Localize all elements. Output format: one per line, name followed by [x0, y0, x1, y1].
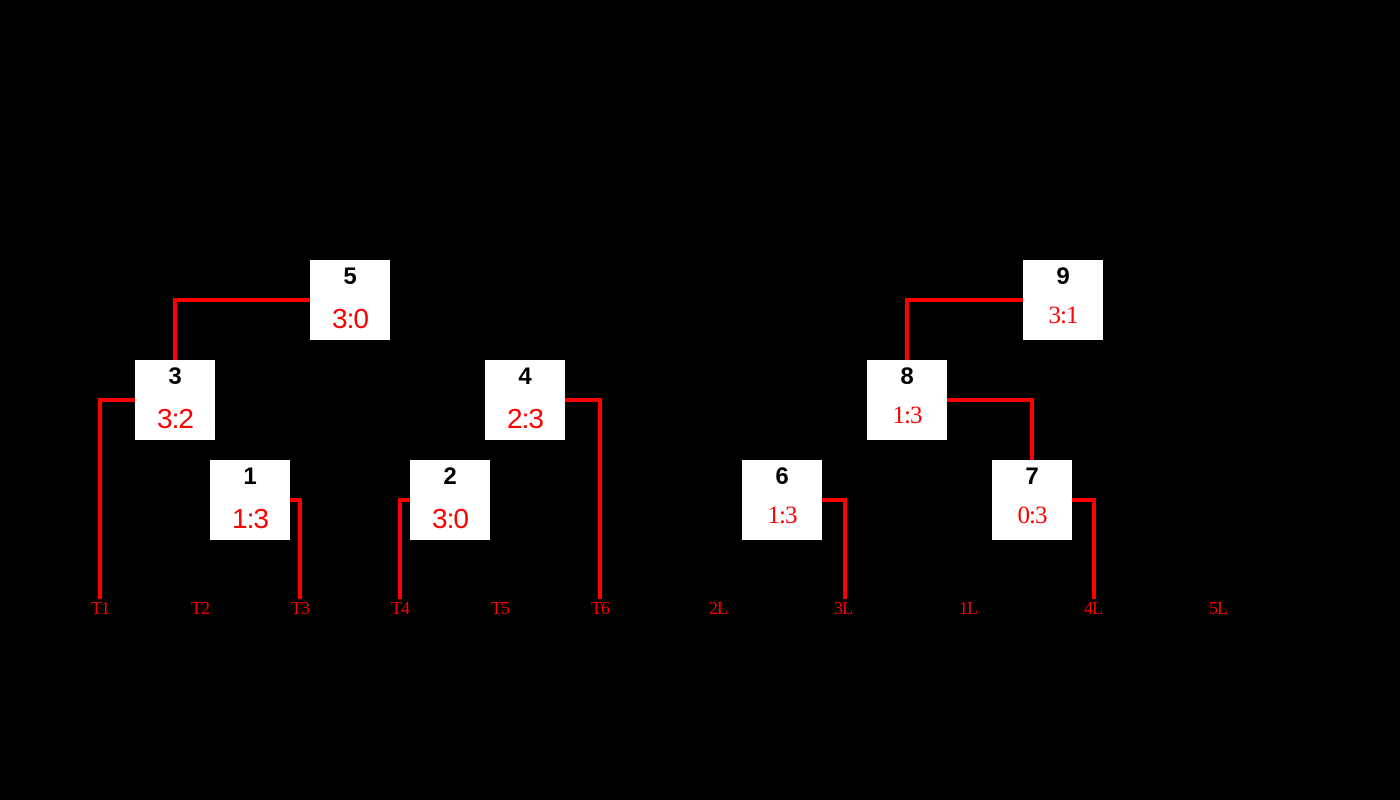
wire box4 to T6 vertical	[598, 398, 602, 599]
wire box8 to box7 vertical	[1030, 398, 1034, 460]
label T1	[70, 599, 130, 617]
wire box4 to T6 horizontal	[565, 398, 602, 402]
label 2L	[688, 599, 748, 617]
wire box9 to box8 vertical	[905, 298, 909, 360]
label 3L	[813, 599, 873, 617]
wire T4 to box2 horizontal	[398, 498, 410, 502]
wire box3 to box5 horizontal	[173, 298, 310, 302]
label T6	[570, 599, 630, 617]
wire T4 riser vertical	[398, 498, 402, 599]
wire T1 riser vertical	[98, 398, 102, 599]
match box 6	[742, 460, 822, 540]
match box 8	[867, 360, 947, 440]
match box 9	[1023, 260, 1103, 340]
label 1L	[938, 599, 998, 617]
wire box6 to 3L horizontal	[822, 498, 847, 502]
label T2	[170, 599, 230, 617]
wire box1 to T3 vertical	[298, 498, 302, 599]
match box 5	[310, 260, 390, 340]
wire box6 to 3L vertical	[843, 498, 847, 599]
match box 4	[485, 360, 565, 440]
wire box3 to box5 vertical	[173, 298, 177, 360]
wire box8 to box7 horizontal	[947, 398, 1034, 402]
label 5L	[1188, 599, 1248, 617]
label 4L	[1063, 599, 1123, 617]
wire box9 to box8 horizontal	[905, 298, 1023, 302]
match box 1	[210, 460, 290, 540]
label T3	[270, 599, 330, 617]
wire box1 to T3 horizontal	[290, 498, 302, 502]
match box 7	[992, 460, 1072, 540]
label T5	[470, 599, 530, 617]
wire box7 to 4L vertical	[1092, 498, 1096, 599]
match box 3	[135, 360, 215, 440]
label T4	[370, 599, 430, 617]
wire box7 to 4L horizontal	[1072, 498, 1096, 502]
match box 2	[410, 460, 490, 540]
wire T1 to box3 horizontal	[98, 398, 135, 402]
